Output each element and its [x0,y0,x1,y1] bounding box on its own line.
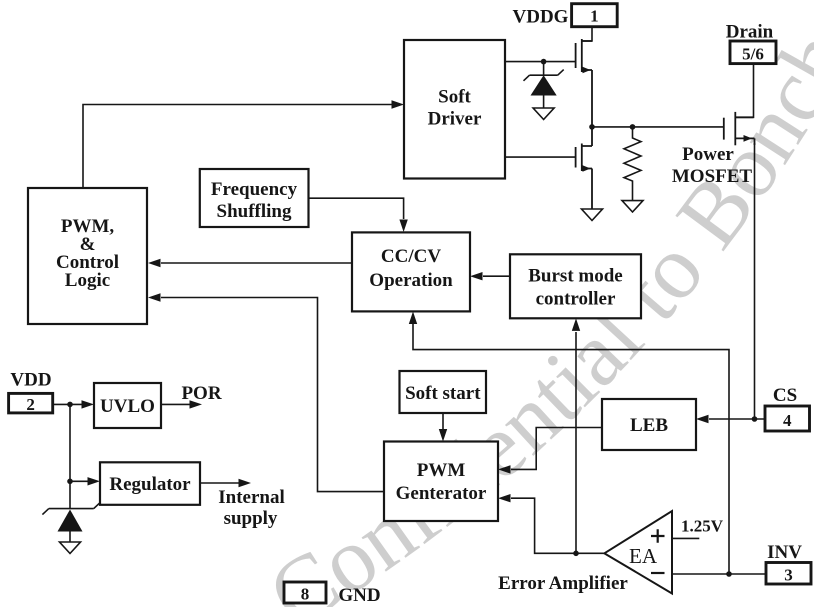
svg-text:POR: POR [181,383,221,404]
wire EA output branch to Burst mode bottom [575,332,577,553]
wire LEB output to PWM Generator [511,428,602,470]
wire INV net: pin 3 to EA inverting input [672,573,766,575]
wire VDDG pin 1 to driver MOSFET drain [582,27,592,41]
svg-text:CS: CS [773,385,797,406]
arrowhead POR [190,400,203,408]
svg-text:LEB: LEB [630,415,668,436]
junction node VDD upper [67,402,73,408]
svg-text:Regulator: Regulator [109,474,191,495]
svg-text:Drain: Drain [726,22,774,43]
wire Soft start to PWM Generator [442,413,444,429]
arrowhead Internal supply [239,479,252,487]
pin box 3 INV [766,563,811,585]
svg-text:Soft start: Soft start [405,383,481,404]
wire PWM logic top to Soft Driver [83,105,392,189]
svg-text:Error Amplifier: Error Amplifier [498,573,628,594]
block LEB [602,399,696,450]
ground below lower driver MOSFET [582,209,603,221]
junction node at sense resistor [630,124,636,130]
junction node EA output [573,551,579,557]
zener diode D1 at driver gate [524,70,564,108]
pin box 8 GND [284,582,326,603]
wire PWM Generator output to PWM logic [161,298,384,492]
watermark Confidential to Bonchip [294,63,814,607]
svg-text:FrequencyShuffling: FrequencyShuffling [211,179,298,222]
op-amp non-inverting input stub 1.25V [672,537,699,539]
junction node CS net [752,416,758,422]
wire INV net vertical and feedback to CC/CV bottom [413,324,729,574]
junction node between driver MOSFETs [589,124,595,130]
arrowhead into Regulator [88,477,101,485]
plus symbol [651,529,665,542]
arrowhead into PWM Generator input upper [498,465,511,473]
svg-text:8: 8 [301,585,310,604]
svg-text:UVLO: UVLO [100,396,155,417]
wire VDD pin 2 to UVLO [53,403,82,405]
arrowhead into PWM Generator input lower [498,494,511,502]
block Regulator [100,462,200,505]
arrowhead into UVLO [82,400,95,408]
wire VDD branch to Regulator [70,480,88,482]
wire UVLO to POR [161,403,190,405]
block Soft Driver [404,40,505,179]
svg-text:2: 2 [26,395,35,414]
wire Soft Driver to upper MOSFET gate [505,61,576,63]
pin box 5/6 Drain [730,41,776,64]
transistor M2 lower driver MOSFET [576,127,592,209]
block Soft start [400,371,487,413]
svg-text:EA: EA [629,544,658,568]
block PWM & Control Logic [28,188,147,324]
wire Power MOSFET source down to CS net [754,143,756,419]
resistor R1 sense [624,127,641,201]
wire driver node to Power MOSFET gate [592,126,724,128]
wire CS net: pin 4 to LEB [709,418,765,420]
block Burst mode controller [510,254,641,318]
svg-text:VDD: VDD [10,370,51,391]
arrowhead into Soft Driver [392,100,405,108]
wire Burst mode to CC/CV [483,275,510,277]
zener diode D2 at VDD [42,503,100,542]
wire Regulator to Internal supply [200,482,239,484]
svg-text:INV: INV [767,542,802,563]
ground below zener D1 [533,108,554,120]
arrowhead into PWM logic upper [148,259,161,267]
arrowhead into Burst mode bottom [572,318,580,331]
transistor M1 upper driver MOSFET [576,39,592,127]
pin box 2 VDD [9,393,53,413]
svg-text:1: 1 [590,7,599,26]
wire Frequency Shuffling to CC/CV [309,198,404,219]
wire VDD vertical to zener [69,404,71,509]
arrowhead into PWM Generator top [439,429,447,442]
junction node at gate zener [541,59,547,65]
arrowhead into PWM logic lower [148,293,161,301]
pin box 1 VDDG [572,4,618,27]
arrowhead into CC/CV bottom [409,312,417,325]
op-amp U1 EA error amplifier [604,511,672,594]
svg-text:VDDG: VDDG [513,7,569,28]
arrowhead into CC/CV top [399,220,407,233]
transistor Q1 Power MOSFET [724,112,755,145]
pin box 4 CS [765,406,810,431]
block Frequency Shuffling [200,169,309,227]
svg-text:5/6: 5/6 [742,45,764,64]
junction node VDD lower [67,479,73,485]
svg-text:PWM,&ControlLogic: PWM,&ControlLogic [56,216,119,291]
svg-text:1.25V: 1.25V [681,517,724,536]
arrowhead into CC/CV right [470,272,483,280]
ground below zener D2 [60,542,81,554]
minus symbol [651,572,665,574]
arrowhead into LEB right [696,415,709,423]
ground below resistor R1 [622,201,643,212]
block UVLO [94,383,161,428]
svg-text:4: 4 [783,411,792,430]
wire Drain pin 5/6 to Power MOSFET drain [735,64,753,118]
svg-text:3: 3 [784,566,793,585]
wire zener stem from gate wire [543,62,545,76]
wire Soft Driver to lower MOSFET gate [505,156,576,158]
wire CC/CV to PWM logic [161,262,351,264]
block CC/CV Operation [352,232,470,311]
svg-text:Internalsupply: Internalsupply [218,487,285,529]
wire EA output to PWM Generator [511,498,604,553]
block PWM Genterator [384,442,498,522]
svg-text:GND: GND [338,585,380,606]
junction node INV net [726,571,732,577]
